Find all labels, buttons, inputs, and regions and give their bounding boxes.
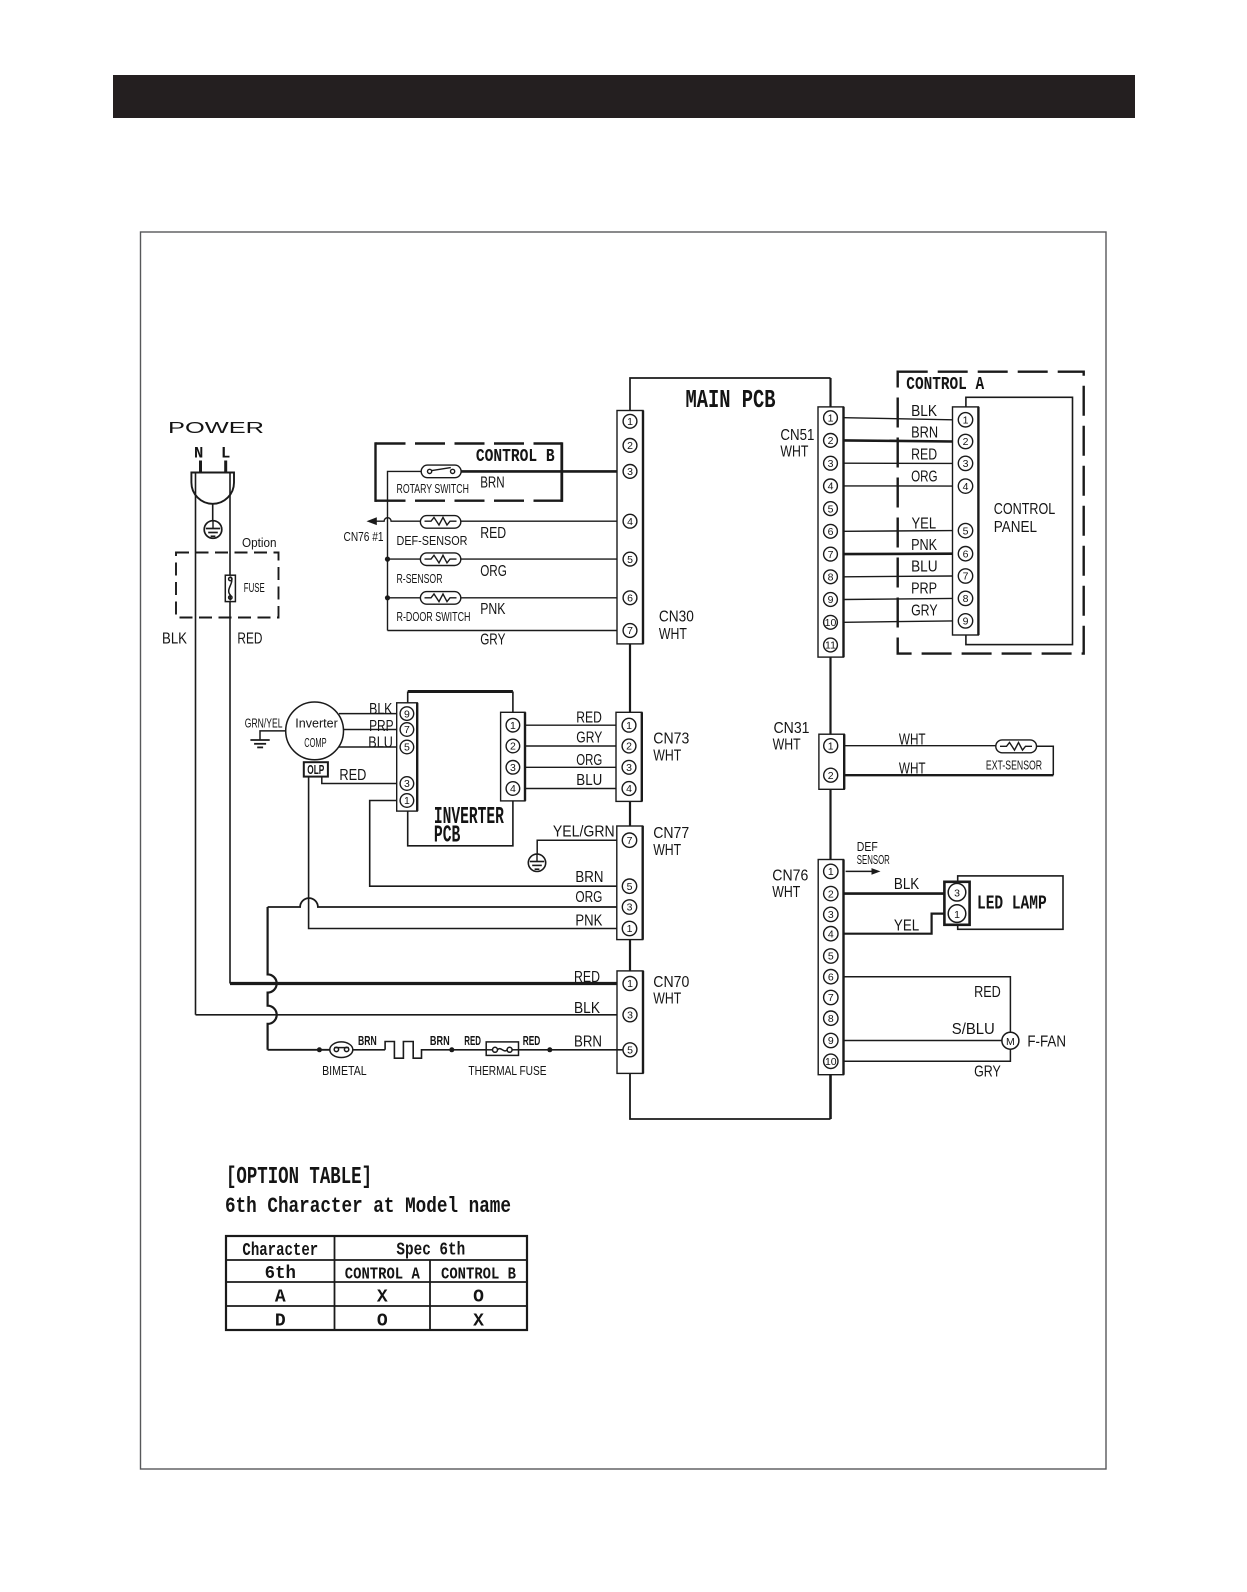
svg-text:BRN: BRN bbox=[574, 1034, 602, 1051]
svg-text:9: 9 bbox=[404, 708, 410, 720]
svg-text:ORG: ORG bbox=[911, 468, 938, 485]
ground plug earth bbox=[204, 521, 222, 539]
wire BRN bimetal to heater bbox=[353, 1034, 385, 1050]
wire PNK CN51-7 to panel bbox=[844, 537, 953, 554]
svg-text:D: D bbox=[275, 1312, 286, 1332]
svg-text:4: 4 bbox=[828, 481, 834, 493]
svg-text:PNK: PNK bbox=[911, 537, 937, 554]
svg-text:CN77: CN77 bbox=[653, 825, 689, 842]
node junction R-DOOR bbox=[385, 595, 390, 600]
svg-text:2: 2 bbox=[828, 770, 834, 782]
wire ORG CN51-4 to panel bbox=[844, 468, 953, 486]
svg-text:1: 1 bbox=[404, 795, 410, 807]
svg-text:CN51: CN51 bbox=[780, 427, 814, 444]
control panel box bbox=[966, 397, 1073, 644]
svg-text:RED: RED bbox=[339, 767, 366, 784]
svg-text:RED: RED bbox=[237, 630, 262, 647]
wire rotary common down bbox=[388, 471, 422, 630]
svg-text:3: 3 bbox=[627, 1010, 633, 1022]
wire BRN thermal fuse to CN70-5 bbox=[519, 1034, 624, 1053]
svg-text:R-DOOR SWITCH: R-DOOR SWITCH bbox=[397, 610, 471, 624]
svg-text:WHT: WHT bbox=[659, 626, 687, 643]
svg-text:GRY: GRY bbox=[974, 1064, 1001, 1081]
svg-text:RED: RED bbox=[480, 525, 506, 542]
svg-text:BLU: BLU bbox=[368, 735, 393, 752]
wire ORG inverter to CN73-3 bbox=[525, 752, 623, 769]
svg-text:1: 1 bbox=[828, 866, 834, 878]
svg-text:X: X bbox=[473, 1312, 484, 1332]
connector inverter pcb left bbox=[397, 703, 418, 811]
svg-text:BIMETAL: BIMETAL bbox=[322, 1064, 367, 1078]
svg-text:1: 1 bbox=[828, 412, 834, 424]
svg-text:6: 6 bbox=[963, 548, 969, 560]
wire GRN/YEL comp to earth bbox=[245, 717, 286, 740]
svg-text:ORG: ORG bbox=[576, 752, 602, 769]
inverter compressor motor bbox=[286, 702, 344, 760]
svg-text:3: 3 bbox=[627, 902, 633, 914]
wire WHT ext-sensor return to CN31-2 bbox=[844, 746, 1053, 777]
ext-sensor bbox=[986, 740, 1042, 773]
wire RED def-sensor to CN30 pin4 bbox=[461, 521, 624, 542]
r-sensor bbox=[397, 553, 461, 586]
wire BLK power to CN70-3 bbox=[196, 1000, 624, 1017]
option dashed box bbox=[176, 536, 279, 618]
wire BRN inverter pin1 to CN77-5 bbox=[370, 801, 617, 887]
svg-text:WHT: WHT bbox=[772, 884, 800, 901]
svg-text:9: 9 bbox=[963, 616, 969, 628]
defrost heater square-wave bbox=[385, 1042, 486, 1059]
svg-text:3: 3 bbox=[828, 909, 834, 921]
svg-text:5: 5 bbox=[627, 1045, 633, 1057]
svg-text:7: 7 bbox=[627, 625, 633, 637]
connector LED lamp bbox=[944, 882, 969, 925]
connector CN73 bbox=[616, 712, 689, 801]
wire BLU comp to inverter pcb pin5 bbox=[339, 735, 397, 752]
wire BLK CN51-1 to panel bbox=[844, 403, 953, 420]
node junction after heater bbox=[449, 1047, 454, 1052]
svg-text:1: 1 bbox=[627, 416, 633, 428]
svg-text:RED: RED bbox=[576, 710, 602, 727]
svg-text:PNK: PNK bbox=[480, 601, 505, 618]
svg-text:CN76 #1: CN76 #1 bbox=[344, 530, 384, 544]
svg-text:3: 3 bbox=[963, 458, 969, 470]
svg-text:BLK: BLK bbox=[911, 403, 937, 420]
option table text bbox=[242, 1241, 516, 1332]
ground comp earth bbox=[250, 740, 269, 747]
svg-text:3: 3 bbox=[510, 762, 516, 774]
svg-text:Spec 6th: Spec 6th bbox=[396, 1241, 465, 1261]
svg-text:3: 3 bbox=[627, 466, 633, 478]
svg-text:CN31: CN31 bbox=[774, 720, 810, 737]
svg-text:5: 5 bbox=[963, 525, 969, 537]
fuse FUSE bbox=[225, 575, 264, 601]
wire BRN heater line to bimetal bbox=[268, 1049, 330, 1051]
svg-text:9: 9 bbox=[828, 1035, 834, 1047]
motor F-FAN bbox=[1002, 1032, 1066, 1050]
svg-text:WHT: WHT bbox=[653, 748, 681, 765]
svg-text:1: 1 bbox=[626, 720, 632, 732]
svg-text:4: 4 bbox=[510, 783, 516, 795]
svg-text:RED: RED bbox=[523, 1034, 541, 1048]
connector CN30 bbox=[617, 411, 694, 644]
svg-text:RED: RED bbox=[911, 447, 937, 464]
svg-text:CN70: CN70 bbox=[653, 974, 689, 991]
wire RED power L bbox=[230, 473, 262, 984]
wire S/BLU CN76-9 to fan motor bbox=[844, 1021, 1002, 1041]
svg-text:O: O bbox=[473, 1288, 484, 1308]
svg-text:4: 4 bbox=[828, 928, 834, 940]
svg-text:5: 5 bbox=[627, 881, 633, 893]
wire GRY to CN30 pin7 bbox=[388, 631, 624, 649]
svg-text:BLK: BLK bbox=[162, 630, 187, 647]
wire ORG r-sensor to CN30 pin5 bbox=[388, 559, 624, 580]
svg-text:RED: RED bbox=[464, 1034, 481, 1048]
wire GRY CN51-10 to panel bbox=[844, 603, 953, 623]
svg-text:EXT-SENSOR: EXT-SENSOR bbox=[986, 759, 1042, 773]
svg-text:2: 2 bbox=[510, 741, 516, 753]
svg-text:BRN: BRN bbox=[358, 1034, 377, 1048]
connector CN70 bbox=[617, 971, 689, 1074]
svg-text:YEL/GRN: YEL/GRN bbox=[553, 824, 615, 841]
thermal fuse bbox=[468, 1042, 546, 1078]
svg-text:BRN: BRN bbox=[911, 425, 938, 442]
svg-text:POWER: POWER bbox=[168, 420, 264, 437]
svg-text:7: 7 bbox=[828, 992, 834, 1004]
svg-text:YEL: YEL bbox=[912, 515, 937, 532]
main pcb outline bbox=[630, 378, 831, 1119]
svg-text:5: 5 bbox=[828, 951, 834, 963]
wire RED inverter to CN73-1 bbox=[525, 710, 623, 727]
svg-text:FUSE: FUSE bbox=[244, 581, 265, 595]
svg-text:6: 6 bbox=[828, 526, 834, 538]
wire ORG to CN77-3 with hop bbox=[268, 889, 617, 907]
svg-text:1: 1 bbox=[510, 720, 516, 732]
wire BLU CN51-8 to panel bbox=[844, 559, 953, 577]
svg-text:THERMAL FUSE: THERMAL FUSE bbox=[468, 1064, 546, 1078]
svg-text:GRN/YEL: GRN/YEL bbox=[245, 717, 283, 731]
wire BLK comp to inverter pcb pin9 bbox=[339, 701, 397, 718]
svg-text:R-SENSOR: R-SENSOR bbox=[397, 572, 443, 586]
wire PRP comp to inverter pcb pin7 bbox=[343, 718, 396, 735]
wire def-sensor to CN76 pin1 with hop and arrow bbox=[344, 517, 421, 544]
svg-text:3: 3 bbox=[954, 888, 960, 900]
wire PNK OLP to CN77-1 bbox=[309, 777, 617, 930]
power plug bbox=[191, 445, 234, 521]
svg-text:1: 1 bbox=[963, 415, 969, 427]
connector inverter pcb right bbox=[501, 712, 525, 801]
svg-text:6: 6 bbox=[627, 593, 633, 605]
svg-text:CN73: CN73 bbox=[653, 731, 689, 748]
wire BLK power N bbox=[162, 473, 196, 1015]
wire YEL CN51-6 to panel bbox=[844, 515, 953, 532]
svg-text:8: 8 bbox=[963, 593, 969, 605]
svg-text:DEF-SENSOR: DEF-SENSOR bbox=[397, 534, 468, 548]
svg-text:6: 6 bbox=[828, 971, 834, 983]
svg-text:5: 5 bbox=[627, 554, 633, 566]
svg-text:F-FAN: F-FAN bbox=[1027, 1033, 1066, 1050]
svg-text:PRP: PRP bbox=[911, 581, 937, 598]
svg-text:BLU: BLU bbox=[576, 772, 602, 789]
control box CONTROL A bbox=[898, 372, 1084, 654]
svg-text:9: 9 bbox=[828, 594, 834, 606]
svg-text:N: N bbox=[194, 445, 203, 463]
svg-text:WHT: WHT bbox=[780, 444, 808, 461]
svg-text:1: 1 bbox=[627, 923, 633, 935]
svg-text:YEL: YEL bbox=[894, 918, 919, 935]
svg-text:M: M bbox=[1006, 1036, 1015, 1048]
svg-text:SENSOR: SENSOR bbox=[857, 853, 890, 867]
svg-text:CN30: CN30 bbox=[659, 609, 694, 626]
connector CN51 bbox=[780, 407, 843, 657]
svg-text:PNK: PNK bbox=[575, 913, 602, 930]
svg-text:2: 2 bbox=[963, 436, 969, 448]
svg-text:LED LAMP: LED LAMP bbox=[977, 893, 1047, 915]
svg-text:Character: Character bbox=[242, 1241, 318, 1261]
ground earth CN77 bbox=[528, 854, 545, 872]
svg-text:7: 7 bbox=[828, 549, 834, 561]
svg-text:CN76: CN76 bbox=[772, 867, 808, 884]
svg-text:8: 8 bbox=[828, 1013, 834, 1025]
LED LAMP box bbox=[958, 876, 1063, 929]
svg-text:7: 7 bbox=[963, 571, 969, 583]
svg-text:CONTROL A: CONTROL A bbox=[345, 1266, 421, 1285]
r-door switch bbox=[397, 592, 471, 624]
wire RED CN51-3 to panel bbox=[844, 447, 953, 464]
OLP protector bbox=[304, 762, 328, 777]
svg-text:ORG: ORG bbox=[575, 889, 602, 906]
svg-text:10: 10 bbox=[825, 1056, 837, 1068]
svg-text:O: O bbox=[377, 1312, 388, 1332]
svg-text:GRY: GRY bbox=[576, 729, 602, 746]
svg-text:4: 4 bbox=[626, 783, 632, 795]
connector CN77 bbox=[617, 825, 689, 940]
svg-text:PCB: PCB bbox=[434, 823, 461, 850]
svg-text:GRY: GRY bbox=[480, 632, 505, 649]
svg-text:11: 11 bbox=[825, 640, 836, 652]
title bar bbox=[113, 75, 1135, 118]
svg-text:Option: Option bbox=[242, 536, 277, 550]
control box CONTROL B bbox=[376, 442, 562, 502]
svg-text:[OPTION TABLE]: [OPTION TABLE] bbox=[226, 1164, 372, 1191]
svg-text:ORG: ORG bbox=[480, 563, 507, 580]
svg-text:BRN: BRN bbox=[575, 869, 603, 886]
svg-text:2: 2 bbox=[627, 440, 633, 452]
svg-text:COMP: COMP bbox=[304, 736, 326, 750]
svg-text:PANEL: PANEL bbox=[994, 519, 1037, 536]
wire RED CN76-6 to fan motor bbox=[844, 977, 1011, 1032]
svg-text:CONTROL: CONTROL bbox=[994, 501, 1055, 518]
svg-text:6th: 6th bbox=[265, 1264, 296, 1284]
svg-text:WHT: WHT bbox=[899, 761, 926, 778]
svg-text:2: 2 bbox=[828, 888, 834, 900]
svg-text:8: 8 bbox=[828, 572, 834, 584]
wire YEL CN76-4 to LED lamp pin1 bbox=[844, 914, 945, 935]
svg-text:ROTARY SWITCH: ROTARY SWITCH bbox=[397, 482, 469, 496]
svg-text:BLK: BLK bbox=[894, 876, 920, 893]
svg-text:PRP: PRP bbox=[369, 718, 394, 735]
svg-text:WHT: WHT bbox=[899, 731, 926, 748]
connector CN76 bbox=[772, 860, 843, 1075]
svg-text:WHT: WHT bbox=[653, 991, 681, 1008]
svg-text:GRY: GRY bbox=[911, 603, 938, 620]
option table grid bbox=[226, 1236, 527, 1330]
svg-text:A: A bbox=[275, 1288, 286, 1308]
svg-text:4: 4 bbox=[963, 481, 969, 493]
svg-text:BLK: BLK bbox=[574, 1000, 600, 1017]
rotary switch bbox=[397, 465, 469, 496]
bimetal switch bbox=[322, 1042, 367, 1078]
svg-text:X: X bbox=[377, 1288, 388, 1308]
wire BRN rotary to CN30 pin3 bbox=[461, 471, 623, 491]
svg-text:CONTROL B: CONTROL B bbox=[441, 1266, 516, 1285]
svg-text:4: 4 bbox=[627, 516, 633, 528]
wire BRN CN51-2 to panel bbox=[844, 425, 953, 442]
wire YEL/GRN CN77-7 to earth bbox=[537, 824, 617, 854]
svg-text:MAIN PCB: MAIN PCB bbox=[686, 386, 776, 415]
svg-text:BLU: BLU bbox=[911, 559, 938, 576]
wire RED OLP to inverter pcb pin3 bbox=[322, 767, 397, 784]
svg-text:RED: RED bbox=[974, 984, 1001, 1001]
connector control panel CP bbox=[953, 407, 979, 635]
wire BLK CN76-2 to LED lamp pin3 bbox=[844, 876, 946, 893]
svg-text:WHT: WHT bbox=[653, 842, 681, 859]
svg-text:3: 3 bbox=[828, 458, 834, 470]
wire RED power to CN70-1 bbox=[230, 969, 623, 986]
svg-text:3: 3 bbox=[404, 778, 410, 790]
svg-text:3: 3 bbox=[626, 762, 632, 774]
svg-text:CONTROL B: CONTROL B bbox=[476, 446, 555, 467]
svg-text:WHT: WHT bbox=[773, 737, 801, 754]
wire PRP CN51-9 to panel bbox=[844, 581, 953, 600]
wire BLU inverter to CN73-4 bbox=[525, 772, 623, 789]
svg-text:5: 5 bbox=[404, 742, 410, 754]
def sensor arrow from CN76-1 bbox=[846, 840, 890, 875]
svg-text:CONTROL A: CONTROL A bbox=[906, 375, 984, 395]
svg-text:L: L bbox=[221, 445, 230, 463]
svg-text:2: 2 bbox=[828, 435, 834, 447]
node junction before bimetal bbox=[317, 1047, 322, 1052]
svg-text:7: 7 bbox=[627, 835, 633, 847]
svg-text:1: 1 bbox=[954, 909, 960, 921]
svg-text:RED: RED bbox=[574, 969, 600, 986]
wire GRY inverter to CN73-2 bbox=[525, 729, 623, 746]
svg-text:10: 10 bbox=[825, 617, 837, 629]
connector CN31 bbox=[773, 720, 845, 789]
def-sensor bbox=[397, 516, 468, 549]
svg-text:6th Character at Model name: 6th Character at Model name bbox=[225, 1194, 511, 1219]
svg-text:5: 5 bbox=[828, 503, 834, 515]
wire PNK r-door to CN30 pin6 bbox=[388, 598, 624, 618]
svg-text:BRN: BRN bbox=[430, 1034, 450, 1048]
svg-text:1: 1 bbox=[828, 740, 834, 752]
node junction R-SENSOR bbox=[385, 557, 390, 562]
wire GRY CN76-10 to fan motor bbox=[844, 1049, 1011, 1080]
svg-text:S/BLU: S/BLU bbox=[952, 1021, 995, 1038]
svg-text:7: 7 bbox=[404, 724, 410, 736]
svg-text:BLK: BLK bbox=[369, 701, 393, 718]
svg-text:Inverter: Inverter bbox=[295, 717, 338, 731]
svg-text:2: 2 bbox=[626, 741, 632, 753]
svg-text:1: 1 bbox=[627, 978, 633, 990]
wire ORG branch down to heater line with hops bbox=[268, 907, 277, 1050]
inverter pcb outline bbox=[408, 692, 513, 850]
svg-text:OLP: OLP bbox=[307, 763, 324, 777]
svg-text:BRN: BRN bbox=[480, 475, 505, 492]
wire WHT CN31-1 to ext-sensor bbox=[844, 731, 996, 748]
